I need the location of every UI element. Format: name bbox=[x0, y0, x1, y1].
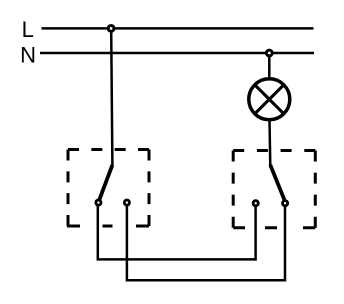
node on N line bbox=[266, 50, 272, 56]
wire N line bbox=[40, 52, 314, 55]
wire from N node down to lamp bbox=[268, 55, 271, 79]
lamp E1 bbox=[249, 79, 290, 120]
switch S2 box (dashed) bbox=[233, 151, 315, 228]
svg-text:N: N bbox=[20, 43, 36, 68]
switch S2 terminal left bbox=[253, 201, 258, 206]
switch S1 lever bbox=[99, 165, 112, 200]
wire from lamp down to right switch bbox=[268, 120, 271, 167]
wire L line bbox=[42, 27, 314, 30]
switch S1 terminal left bbox=[96, 200, 101, 205]
svg-text:L: L bbox=[22, 17, 34, 42]
node on L line bbox=[108, 26, 114, 32]
switch S1 box (dashed) bbox=[67, 150, 149, 227]
wire traveler upper: S1 left terminal to S2 left terminal bbox=[98, 206, 256, 260]
wire from L node down to left switch bbox=[111, 30, 112, 167]
wire traveler lower: S1 right terminal to S2 right terminal bbox=[127, 206, 285, 281]
switch S1 terminal right bbox=[124, 200, 129, 205]
switch S2 lever bbox=[270, 165, 284, 200]
switch S2 terminal right bbox=[283, 201, 288, 206]
